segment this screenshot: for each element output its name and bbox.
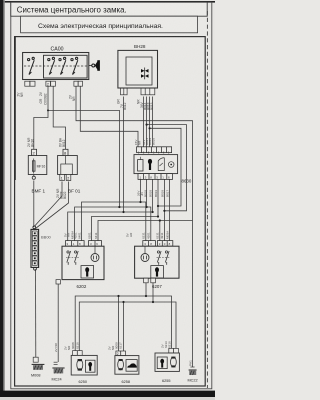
top black scan line bbox=[0, 1, 215, 3]
outer page frame bbox=[11, 2, 212, 389]
motor ellipse bbox=[77, 359, 83, 370]
BH28 connector marks bbox=[141, 68, 149, 80]
top pins right group bbox=[157, 241, 172, 247]
bottom pin row bbox=[138, 174, 173, 180]
sub-box with key bbox=[85, 360, 95, 372]
switches inside right bbox=[157, 251, 159, 253]
labels above 8630 top pins bbox=[134, 138, 155, 145]
staple A: 6250 p1 to 6255 p1 bbox=[75, 296, 171, 351]
motor ellipse right bbox=[171, 357, 177, 367]
label on MC24 wire bbox=[54, 342, 58, 352]
step S1: 8630 p1 to 6202 p3 and 6207 lp1 bbox=[140, 180, 142, 203]
BH28 wire labels NR / 34V B014 B018 B015 bbox=[136, 99, 154, 110]
wire 6202 left pin down to ground MC24 bbox=[57, 281, 59, 362]
top pins right group bbox=[89, 241, 102, 247]
bottom connector circle bbox=[32, 176, 35, 179]
labels on 6258 wires bbox=[108, 342, 123, 350]
switches inside bbox=[67, 251, 69, 253]
sub-box with key left bbox=[157, 357, 167, 369]
labels on BF01 down wires bbox=[56, 188, 67, 199]
switch s3 bbox=[59, 57, 66, 74]
mechanical coupling dashed line bbox=[24, 65, 87, 67]
internal structure bbox=[65, 156, 67, 165]
left bottom pin to MC24 bbox=[56, 280, 60, 284]
wire CA00 pin 2 to BMF1 (with jog) bbox=[34, 87, 48, 150]
CA00 inner box bbox=[44, 55, 88, 78]
inner diagram frame bbox=[15, 37, 206, 386]
staple B: 6250 p2 to 6255 p2 bbox=[79, 302, 176, 351]
labels above 6202 bbox=[63, 231, 98, 239]
BH28 wire labels GR / 7V B012 bbox=[117, 99, 128, 110]
top pins left group bbox=[143, 241, 156, 247]
darker left inner frame segment bbox=[14, 37, 16, 180]
inner sub-box with key bbox=[81, 266, 94, 278]
wire 6207 bottom pin1 to staple A bbox=[145, 283, 147, 296]
CA00 bottom pin pair 1 bbox=[25, 81, 35, 86]
switch s1 bbox=[28, 57, 35, 74]
scan grain overlay bbox=[5, 2, 212, 391]
wire BMF1 bottom to BB00 connector bbox=[33, 181, 35, 228]
wire BB00 bottom to ground M008 bbox=[35, 269, 37, 357]
wire 6258 p2 up to staple B bbox=[123, 302, 125, 351]
labels on 6250 wires bbox=[64, 342, 80, 350]
bottom pins bbox=[144, 278, 149, 283]
wire 6258 p1 up to staple A bbox=[118, 296, 120, 351]
label 2V GR left of pair1 bbox=[17, 92, 25, 97]
labels below 8630 bottom pins bbox=[137, 190, 170, 197]
page background bbox=[0, 0, 215, 400]
wire BH28 NR pin4 to 8630 top bbox=[152, 97, 154, 149]
motor symbol bbox=[91, 254, 99, 262]
CA00 bottom pin pair 2 bbox=[46, 81, 56, 86]
top pin row bbox=[137, 147, 172, 153]
circle icon bbox=[168, 162, 174, 168]
motor ellipse bbox=[118, 359, 124, 369]
bottom black scan bar bbox=[0, 391, 215, 397]
relay coil icon bbox=[138, 160, 143, 171]
step S2: 8630 p2 to 6202 p2 and 6207 lp2 bbox=[146, 180, 148, 208]
key symbol bbox=[89, 60, 100, 71]
step S3: 8630 p3 to 6202 p1 bbox=[152, 180, 154, 213]
paper inside outer frame bbox=[5, 2, 212, 391]
label 8V BA B012 on BF01 wire bbox=[59, 137, 67, 147]
wire branch BH28 NR pin2 to bus 186.5 bbox=[147, 125, 187, 211]
CA00 outer box bbox=[23, 53, 89, 80]
wire BH28 NR pin3 to 8630 top (with branch) bbox=[149, 97, 151, 149]
wire BF01 pin1 diagonal to BB00 bbox=[34, 182, 62, 227]
title bar 2 bbox=[21, 16, 198, 33]
left black scan bar bbox=[0, 0, 3, 400]
wire branch BH28 NR pin3 to bus 181 bbox=[150, 128, 181, 206]
step S5: long run 6202 rp2 to 6207 rp1 and MC22 bus bbox=[98, 221, 193, 247]
dashed cut line right bbox=[206, 11, 208, 388]
label PH1 on MC22 wire bbox=[189, 360, 193, 366]
labels on 6255 wires bbox=[161, 341, 172, 348]
wire 8630 p6 down to 6207 rp3 bbox=[169, 180, 171, 241]
inner sub-box with key bbox=[151, 266, 164, 278]
BH28 bottom pin GR bbox=[121, 88, 128, 95]
wire CA00 pin to right bus and MC22 ground bbox=[76, 87, 193, 368]
step S4: 8630 p4 to 6202 rp1 bbox=[157, 180, 159, 217]
wire 6207 bottom pin2 to staple B bbox=[152, 283, 154, 302]
door icon bbox=[158, 158, 164, 171]
wire 8630 p5 down to 6207 rp2 bbox=[163, 180, 165, 241]
key blob icon bbox=[148, 159, 152, 170]
main box bbox=[134, 155, 178, 174]
top pins left group bbox=[66, 241, 85, 247]
wire BF01 pin2 diagonal to BB00 bbox=[36, 182, 69, 229]
fuse symbol bbox=[32, 161, 35, 171]
motor symbol left bbox=[141, 254, 149, 262]
labels above 6207 bbox=[126, 231, 170, 239]
junction dots bbox=[118, 206, 120, 208]
wire A: branch from pin 2 wire to junction on S2 bbox=[48, 110, 119, 207]
main box bbox=[62, 246, 104, 279]
wire CA00 pin to BF01 pin 8 bbox=[53, 87, 65, 150]
wire CA00 pin to 8630 top pin 1 bbox=[80, 87, 138, 149]
bottom pins bbox=[60, 175, 65, 181]
label 2V NR C000B2 under pair2 bbox=[39, 91, 48, 105]
main box bbox=[135, 246, 179, 278]
label 2V NR BH15A under pair4 bbox=[69, 94, 77, 101]
switch s2 bbox=[48, 57, 55, 74]
wire BH28 NR pin1 to 8630 top bbox=[143, 97, 145, 149]
wire BH28 GR pin down to junction on S3 bbox=[123, 97, 125, 213]
wire BH28 NR pin2 to 8630 top (with branch) bbox=[146, 97, 148, 149]
title bar 1 bbox=[11, 2, 207, 16]
CA00 bottom pin pair 4 bbox=[74, 81, 83, 86]
BH28 bottom pins NR bbox=[141, 88, 155, 95]
switch s4 bbox=[71, 57, 78, 74]
sub-box with car icon bbox=[126, 360, 137, 372]
label 2V NR BH16 (BMF1 wire) bbox=[27, 137, 34, 147]
